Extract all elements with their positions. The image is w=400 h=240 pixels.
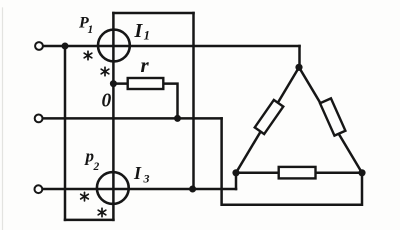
terminal phase C xyxy=(35,185,43,193)
junction dot delta left vertex xyxy=(232,169,239,176)
delta right side xyxy=(299,67,362,173)
wire phase C horizontal xyxy=(43,188,236,191)
polarity asterisk P1 voltage side xyxy=(101,67,109,76)
junction dot phase A xyxy=(62,43,69,50)
junction dot delta top vertex xyxy=(295,64,302,71)
svg-text:3: 3 xyxy=(143,172,150,186)
polarity asterisk P2 line side xyxy=(81,192,89,201)
wire phase A drop to delta top xyxy=(298,46,301,67)
svg-text:1: 1 xyxy=(88,24,94,36)
wire phase C up to delta left vertex xyxy=(235,173,238,189)
wire phase A horizontal xyxy=(43,45,299,48)
svg-text:I: I xyxy=(133,163,142,183)
scan border artifact left edge xyxy=(2,8,4,230)
terminal phase A xyxy=(35,42,43,50)
wire right edge of P1 voltage loop down to phase C xyxy=(192,13,195,189)
load resistor right (delta) xyxy=(320,98,345,135)
svg-text:2: 2 xyxy=(93,161,100,173)
svg-text:0: 0 xyxy=(102,91,112,112)
terminal phase B xyxy=(35,115,43,123)
svg-text:r: r xyxy=(141,53,150,77)
svg-text:p: p xyxy=(84,147,95,166)
junction dot r to phase B xyxy=(174,115,181,122)
wattmeter P1 current coil circle xyxy=(98,30,130,62)
svg-text:I: I xyxy=(134,20,144,42)
polarity asterisk P1 line side xyxy=(84,51,92,60)
polarity asterisk P2 voltage side xyxy=(98,208,106,217)
load resistor bottom (delta) xyxy=(279,167,316,179)
delta bottom side xyxy=(236,172,362,175)
junction dot delta right vertex xyxy=(358,169,365,176)
wire bottom of P2 voltage loop xyxy=(65,219,113,222)
resistor r xyxy=(128,78,164,89)
junction dot node 0 xyxy=(110,80,117,87)
wire top edge of P1 voltage loop xyxy=(113,12,193,15)
delta left side xyxy=(236,67,299,173)
wire main vertical through P1, node 0, P2 xyxy=(112,13,115,220)
wire phase B down right xyxy=(222,118,362,204)
load resistor left (delta) xyxy=(255,100,284,134)
wire node 0 to resistor r xyxy=(113,82,127,85)
wire vertical from node A junction down xyxy=(64,46,67,220)
wattmeter P2 current coil circle xyxy=(97,172,129,204)
wire resistor r to phase B xyxy=(163,84,177,119)
svg-text:1: 1 xyxy=(144,28,151,43)
wire phase B horizontal xyxy=(43,117,222,120)
junction dot phase C / P1 voltage loop xyxy=(189,186,196,193)
